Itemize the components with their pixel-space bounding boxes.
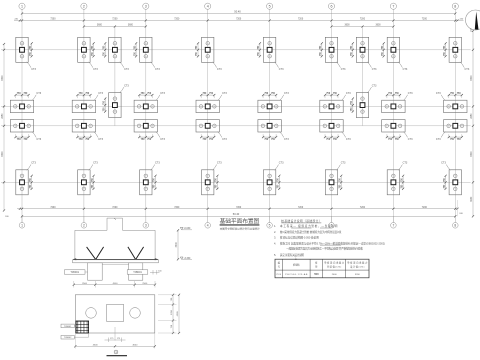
- leader label CT3, row A x=83.9: [89, 62, 99, 71]
- pile cap CT4, row C x=393.4: [382, 120, 405, 132]
- leader label CT4, row B x=207.7: [218, 92, 228, 101]
- grid bubble 7 top: [390, 3, 396, 9]
- pile cap CT3, row D x=83.9: [78, 170, 90, 195]
- pile dim 750/750, row B mid x=362.5: [351, 98, 354, 113]
- grid bubble 6 top: [328, 3, 334, 9]
- leader label CT3, row A x=331.5: [336, 62, 346, 71]
- svg-text:7200: 7200: [236, 207, 242, 209]
- leader label CT4, row C x=207.7: [218, 132, 228, 141]
- pile dim 750/750, row D x=393.4: [401, 175, 404, 190]
- row line A: [1, 49, 471, 51]
- pile cap CT3, row A x=269.6: [263, 37, 275, 62]
- leader label CT4, row B x=393.4: [403, 92, 413, 101]
- svg-text:3.: 3.: [274, 236, 276, 240]
- elevation detail: V brace right: [128, 247, 144, 259]
- pile cap CT3, row A x=331.5: [325, 37, 337, 62]
- pile cap CT3, row A x=207.7: [202, 37, 214, 62]
- svg-text:4600: 4600: [132, 344, 138, 346]
- pile cap CT3, row A x=114.9: [109, 37, 121, 62]
- pile dim 750/750, row A x=207.7: [196, 42, 199, 57]
- svg-text:桩施工时 如发现地质与设计不符5.7%—25%—桩基验收规范: 桩施工时 如发现地质与设计不符5.7%—25%—桩基验收规范有关规定—详见(GB…: [280, 241, 385, 245]
- plan detail: right side dim 750/1950/750: [158, 294, 177, 334]
- pile cap CT3, row A x=393.4: [387, 37, 399, 62]
- plan detail: label box TJB001 upper: [61, 324, 79, 328]
- pile cap CT3, row B mid x=362.5: [356, 93, 368, 118]
- row line D: [1, 181, 471, 183]
- svg-text:7200: 7200: [422, 19, 428, 21]
- svg-text:-0.030: -0.030: [184, 228, 191, 230]
- grid bubble 3 bottom: [143, 216, 149, 228]
- pile cap CT4, row B x=145.8: [134, 100, 157, 112]
- svg-text:桩顶标高详见结构图-0.050 处说明: 桩顶标高详见结构图-0.050 处说明: [280, 236, 319, 240]
- grid line 3: [145, 9, 147, 222]
- grid line 5: [269, 9, 271, 222]
- svg-text:基础平面布置图: 基础平面布置图: [220, 217, 260, 225]
- elevation detail: slab top line with arrows: [73, 258, 159, 260]
- grid line 2-3 intermediate: [114, 27, 116, 127]
- svg-text:8: 8: [454, 224, 456, 228]
- pile dim 750/750, row C x=83.9: [76, 134, 91, 141]
- dimension line right rows A-D: [471, 27, 475, 217]
- pile dim 750/750, row B x=22.0: [14, 93, 29, 98]
- svg-text:50.40: 50.40: [233, 212, 240, 216]
- svg-text:3200: 3200: [355, 274, 361, 276]
- grid bubble 8 bottom: [453, 216, 459, 228]
- plan detail: detail marker 1: [107, 350, 128, 356]
- plan detail: label box TJB002 lower: [61, 333, 89, 339]
- svg-text:500: 500: [314, 272, 319, 276]
- pile cap CT4, row C x=83.9: [72, 120, 95, 132]
- svg-text:7200: 7200: [50, 207, 56, 209]
- svg-text:7200: 7200: [236, 19, 242, 21]
- pile cap CT4, row C x=22.0: [10, 120, 33, 132]
- svg-text:2: 2: [83, 5, 85, 9]
- svg-text:一般规定处理方案后方可继续施工—不得私自处理 并严格按规范执: 一般规定处理方案后方可继续施工—不得私自处理 并严格按规范执行验收.: [286, 247, 363, 251]
- leader label CT3, row A x=362.5: [367, 62, 377, 71]
- svg-text:-3.330: -3.330: [184, 258, 191, 260]
- leader label CT3, row B mid x=362.5: [367, 84, 377, 93]
- note 1 underline segments: [291, 227, 311, 229]
- svg-text:TJB001: TJB001: [70, 271, 79, 274]
- svg-text:3600: 3600: [128, 25, 134, 27]
- svg-text:TJB001: TJB001: [64, 326, 72, 328]
- svg-text:其它 详见有关设计说明: 其它 详见有关设计说明: [280, 253, 304, 257]
- svg-text:6600: 6600: [2, 151, 4, 157]
- pile cap CT4, row B x=22.0: [10, 100, 33, 112]
- svg-text:3600: 3600: [344, 25, 350, 27]
- pile dim 750/750, row D x=83.9: [92, 175, 95, 190]
- pile cap CT3, row D x=331.5: [325, 170, 337, 195]
- svg-text:7200: 7200: [422, 207, 428, 209]
- pile dim 750/750, row B x=145.8: [138, 93, 153, 98]
- svg-text:TJB002: TJB002: [64, 337, 72, 339]
- dimension line top 3600 sub spans grid2-3: [83, 25, 147, 28]
- pile cap CT4, row B x=269.6: [258, 100, 281, 112]
- grid bubble 2 top: [81, 3, 87, 9]
- leader label CT4, row C x=145.8: [156, 132, 166, 141]
- plan detail: pile circle right: [130, 308, 141, 319]
- pile dim 750/750, row C x=145.8: [138, 134, 153, 141]
- pile cap CT3, row D x=22.0: [16, 170, 28, 195]
- dimension line left rows A-D: [2, 43, 5, 212]
- north arrow: [466, 10, 480, 30]
- elevation level mark -0.030: [180, 227, 192, 230]
- svg-text:桩C采用预应力混凝土管桩 桩端持力层为中风化岩层2米: 桩C采用预应力混凝土管桩 桩端持力层为中风化岩层2米: [280, 230, 342, 234]
- svg-text:7: 7: [392, 224, 394, 228]
- elevation detail: V brace left: [87, 247, 104, 259]
- leader label CT3, row A x=269.6: [274, 62, 284, 71]
- pile cap CT3, row D x=393.4: [387, 170, 399, 195]
- pile schedule table: [275, 259, 369, 278]
- pile cap CT3, row A x=145.8: [140, 37, 152, 62]
- grid line 8: [454, 9, 456, 222]
- dimension line top overall 50.40: [21, 9, 457, 14]
- pile dim 750/750, row A x=22.0: [30, 42, 33, 57]
- grid line 6-7 intermediate: [362, 27, 364, 127]
- svg-text:6600: 6600: [471, 151, 473, 157]
- grid bubble 5 top: [267, 3, 273, 9]
- plan detail: column square: [107, 304, 124, 321]
- title underline: [220, 224, 260, 225]
- pile cap CT4, row B x=331.5: [320, 100, 343, 112]
- svg-text:7200: 7200: [50, 19, 56, 21]
- shared dim line 750/3500/750 between elevation and plan detail: [73, 281, 156, 288]
- pile dim 750/750, row D x=145.8: [154, 175, 157, 190]
- pile cap CT3, row A x=83.9: [78, 37, 90, 62]
- svg-text:4500: 4500: [113, 283, 119, 285]
- svg-text:7200: 7200: [298, 19, 304, 21]
- dimension line top 3600 sub spans grid6-7: [330, 25, 394, 28]
- note line 3.: [274, 236, 319, 240]
- grid bubble 7 bottom: [391, 216, 397, 228]
- leader label CT3, row D x=269.6: [274, 162, 284, 171]
- pile dim 750/750, row D x=455.3: [444, 175, 447, 190]
- svg-text:2.: 2.: [274, 230, 276, 234]
- leader label CT4, row C x=269.6: [280, 132, 290, 141]
- pile cap CT4, row B x=83.9: [72, 100, 95, 112]
- leader label CT3, row A x=207.7: [213, 62, 223, 71]
- leader label CT3, row A x=145.8: [151, 62, 161, 71]
- svg-text:桩基础设计说明（基础部分）: 桩基础设计说明（基础部分）: [281, 219, 321, 223]
- svg-text:2: 2: [83, 224, 85, 228]
- leader label CT3, row D x=393.4: [398, 162, 408, 171]
- grid line 2: [83, 9, 85, 222]
- pile cap CT4, row C x=145.8: [134, 120, 157, 132]
- pile cap CT3, row D x=269.6: [263, 170, 275, 195]
- pile dim 750/750, row C x=207.7: [200, 134, 215, 141]
- svg-text:7200: 7200: [112, 207, 118, 209]
- svg-text:PHC500-125-AB: PHC500-125-AB: [285, 273, 308, 276]
- svg-text:2500: 2500: [82, 283, 88, 285]
- leader label CT4, row C x=22.0: [32, 132, 42, 141]
- plan detail: hatched corner pad: [76, 321, 89, 333]
- svg-text:3300: 3300: [176, 242, 178, 248]
- svg-text:4.: 4.: [274, 241, 276, 245]
- leader label CT3, row D x=207.7: [213, 162, 223, 171]
- svg-text:4: 4: [207, 5, 209, 9]
- grid line 1: [21, 9, 23, 222]
- leader label CT3, row B mid x=114.9: [120, 84, 130, 93]
- svg-text:1.: 1.: [274, 224, 276, 228]
- elevation detail: slab body: [73, 260, 159, 263]
- pile dim 750/750, row B x=269.6: [262, 93, 277, 98]
- plan detail: cap outline: [75, 295, 155, 333]
- pile dim 750/750, row C x=455.3: [448, 134, 463, 141]
- leader label CT4, row B x=269.6: [280, 92, 290, 101]
- leader label CT4, row C x=331.5: [342, 132, 352, 141]
- note line 2.: [274, 230, 342, 234]
- plan detail: right overall dim 4500: [177, 294, 180, 334]
- svg-text:7200: 7200: [174, 207, 180, 209]
- pile dim 750/750, row B x=455.3: [448, 93, 463, 98]
- grid bubble 4 top: [205, 3, 211, 9]
- svg-text:3600: 3600: [97, 25, 103, 27]
- svg-text:本图尺寸除标高以米计外均以毫米计: 本图尺寸除标高以米计外均以毫米计: [220, 226, 260, 230]
- grid bubble 8 top: [452, 3, 458, 9]
- elevation detail: pedestal right: [129, 263, 143, 280]
- pile cap CT4, row C x=269.6: [258, 120, 281, 132]
- elevation detail: label box TJB001 right: [127, 270, 148, 274]
- leader label CT3, row D x=455.3: [441, 162, 450, 171]
- svg-text:7200: 7200: [360, 207, 366, 209]
- grid line 7: [392, 9, 394, 222]
- leader label CT3, row D x=83.9: [89, 162, 99, 171]
- pile dim 750/750, row C x=393.4: [386, 134, 401, 141]
- svg-text:1: 1: [21, 224, 23, 228]
- elevation detail: superstructure outline: [75, 218, 155, 259]
- leader label CT4, row B x=145.8: [156, 92, 166, 101]
- grid bubble 1 top: [19, 3, 25, 9]
- svg-text:6: 6: [331, 5, 333, 9]
- svg-text:2250: 2250: [471, 113, 473, 119]
- pile dim 750/750, row B x=393.4: [386, 93, 401, 98]
- svg-text:50.40: 50.40: [234, 9, 241, 13]
- pile dim 750/750, row B x=83.9: [76, 93, 91, 98]
- pile cap CT3, row A x=22.0: [16, 37, 28, 62]
- svg-text:2250: 2250: [2, 113, 4, 119]
- plan detail: bottom dim 4600/4600: [74, 333, 156, 349]
- table data row: [277, 272, 361, 276]
- svg-text:7: 7: [392, 5, 394, 9]
- elevation detail: pedestal left: [88, 263, 103, 280]
- row line B: [1, 105, 471, 107]
- pile dim 750/750, row C x=331.5: [324, 134, 339, 141]
- elevation level mark -3.330: [180, 257, 192, 260]
- leader label CT4, row B x=83.9: [94, 92, 104, 101]
- svg-text:4: 4: [207, 224, 209, 228]
- svg-text:2400: 2400: [332, 274, 338, 276]
- note line 1.: [274, 224, 338, 228]
- plan detail: center line: [114, 327, 116, 341]
- grid bubble 1 bottom: [19, 216, 25, 228]
- pile dim 750/750, row D x=22.0: [30, 175, 33, 190]
- svg-text:5.: 5.: [274, 253, 276, 257]
- grid bubble 2 bottom: [81, 216, 87, 228]
- pile dim 750/750, row D x=331.5: [339, 175, 342, 190]
- note line 5.: [274, 253, 304, 257]
- grid bubble 6 bottom: [329, 216, 335, 228]
- pile cap CT3, row D x=455.3: [449, 170, 461, 195]
- leader label CT3, row A x=22.0: [27, 62, 37, 71]
- grid bubble 5 bottom: [267, 216, 273, 228]
- svg-text:TJB001: TJB001: [133, 271, 142, 274]
- leader label CT3, row D x=22.0: [27, 162, 37, 171]
- svg-text:4600: 4600: [93, 344, 99, 346]
- svg-text:7200: 7200: [112, 19, 118, 21]
- dimension line bottom overall 50.40: [5, 200, 464, 218]
- pile dim 750/750, row A x=269.6: [258, 42, 261, 57]
- svg-text:7200: 7200: [360, 19, 366, 21]
- grid bubble 3 top: [143, 3, 149, 9]
- pile dim 750/750, row D x=207.7: [216, 175, 219, 190]
- note 4 underline segment: [320, 244, 341, 246]
- dimension line bottom 7200 spans: [17, 207, 459, 210]
- svg-text:8: 8: [454, 5, 456, 9]
- pile cap CT4, row C x=455.3: [444, 120, 467, 132]
- pile dim 750/750, row A x=331.5: [320, 42, 323, 57]
- pile cap CT4, row C x=331.5: [320, 120, 343, 132]
- notes heading: [281, 219, 321, 223]
- table header texts: [278, 261, 368, 269]
- pile dim 750/750, row B mid x=114.9: [103, 98, 106, 113]
- leader label CT4, row C x=455.3: [436, 132, 445, 141]
- elevation detail: slab middle recess: [102, 264, 129, 266]
- grid bubble 4 bottom: [205, 216, 211, 228]
- pile dim 750/750, row A x=83.9: [92, 42, 95, 57]
- elevation detail: penthouse center tick: [114, 218, 116, 219]
- pile dim 750/750, row B x=331.5: [324, 93, 339, 98]
- svg-text:7200: 7200: [174, 19, 180, 21]
- elevation detail: label box TJB001 left: [64, 270, 87, 274]
- pile cap CT4, row B x=455.3: [444, 100, 467, 112]
- svg-text:3: 3: [145, 5, 147, 9]
- pile cap CT3, row D x=207.7: [202, 170, 214, 195]
- leader label CT3, row A x=455.3: [460, 62, 470, 71]
- pile dim 750/750, row A x=455.3: [444, 42, 447, 57]
- dimension line top 7200 spans: [14, 19, 464, 22]
- svg-text:本工程采— 级预应力管桩，—条基说明: 本工程采— 级预应力管桩，—条基说明: [280, 224, 338, 228]
- pile cap CT4, row B x=207.7: [196, 100, 219, 112]
- grid line 4: [207, 9, 209, 222]
- plan detail: mini dim 175/175 below: [105, 338, 126, 343]
- svg-text:6600: 6600: [471, 75, 473, 81]
- leader label CT4, row C x=83.9: [94, 132, 104, 141]
- svg-text:3960: 3960: [471, 196, 473, 202]
- pile cap CT4, row B x=393.4: [382, 100, 405, 112]
- svg-text:5: 5: [269, 224, 271, 228]
- pile dim 750/750, row C x=269.6: [262, 134, 277, 141]
- pile dim 750/750, row A x=362.5: [351, 42, 354, 57]
- pile dim 750/750, row A x=145.8: [134, 42, 137, 57]
- pile cap CT3, row A x=362.5: [356, 37, 368, 62]
- svg-text:1: 1: [21, 5, 23, 9]
- pile dim 750/750, row A x=114.9: [103, 42, 106, 57]
- svg-text:6600: 6600: [2, 75, 4, 81]
- leader label CT3, row D x=331.5: [336, 162, 346, 171]
- row line C: [1, 125, 471, 127]
- pile dim 750/750, row D x=269.6: [278, 175, 281, 190]
- elevation detail: right height dim 3300: [176, 229, 179, 260]
- note line 4.: [274, 241, 385, 245]
- grid line 6: [331, 9, 333, 222]
- leader label CT3, row A x=114.9: [120, 62, 130, 71]
- pile cap CT3, row B mid x=114.9: [109, 93, 121, 118]
- pile dim 750/750, row A x=393.4: [382, 42, 385, 57]
- svg-text:3600: 3600: [375, 25, 381, 27]
- svg-text:5: 5: [269, 5, 271, 9]
- leader label CT3, row A x=393.4: [398, 62, 408, 71]
- pile cap CT3, row D x=145.8: [140, 170, 152, 195]
- elevation detail: 100 mini dim: [150, 270, 162, 275]
- leader label CT4, row B x=455.3: [436, 92, 445, 101]
- svg-text:7200: 7200: [298, 207, 304, 209]
- leader label CT4, row B x=22.0: [32, 92, 42, 101]
- pile cap CT4, row C x=207.7: [196, 120, 219, 132]
- pile dim 750/750, row B x=207.7: [200, 93, 215, 98]
- leader label CT4, row C x=393.4: [403, 132, 413, 141]
- svg-text:2500: 2500: [142, 283, 148, 285]
- svg-text:3: 3: [145, 224, 147, 228]
- pile cap CT3, row A x=455.3: [449, 37, 461, 62]
- leader label CT3, row D x=145.8: [151, 162, 161, 171]
- plan detail: pile circle left: [86, 308, 97, 319]
- leader label CT4, row B x=331.5: [342, 92, 352, 101]
- pile dim 750/750, row C x=22.0: [14, 134, 29, 141]
